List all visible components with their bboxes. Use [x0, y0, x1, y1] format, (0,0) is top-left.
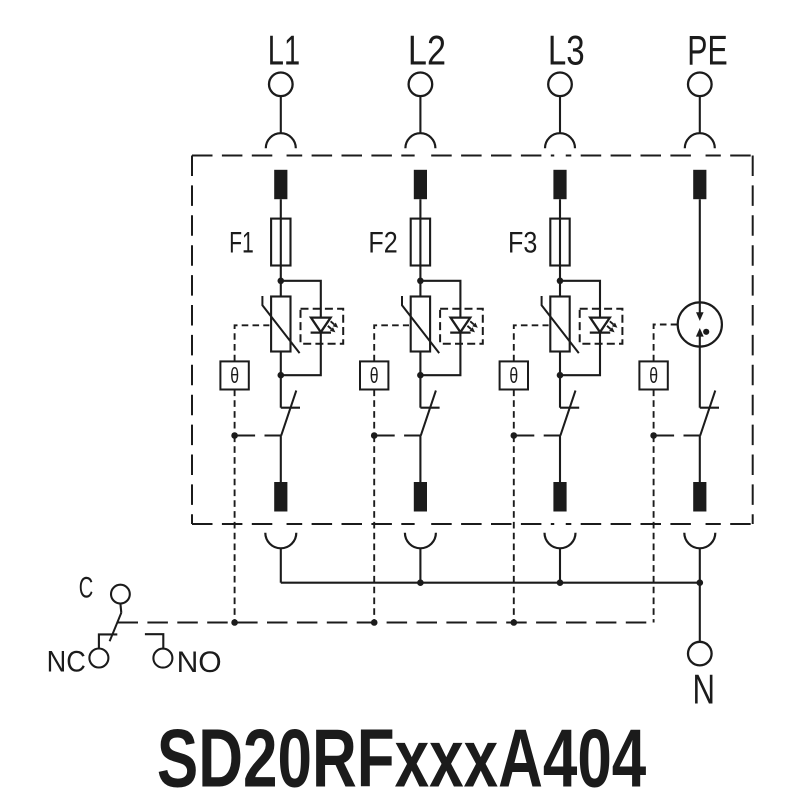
gap in box edges at branch: [415, 153, 427, 159]
terminal block top branch 1: [274, 170, 287, 199]
LED indicator dashed box branch 3: [580, 309, 623, 344]
svg-text:F1: F1: [229, 226, 254, 259]
switch fixed contact tick branch 2: [420, 407, 439, 409]
LED D2 cathode bar: [450, 331, 470, 333]
enclosure dashed box left edge: [191, 156, 193, 525]
wire switch to bottom block branch 1: [280, 436, 282, 483]
dashed linkage to signal bus branch 1: [234, 436, 236, 623]
thermal disconnect box branch 2: [360, 361, 388, 389]
plug-in connector arc bottom branch 2: [405, 533, 436, 549]
wire arc to bus branch 1: [280, 548, 282, 582]
dashed linkage to signal bus branch 2: [373, 436, 375, 623]
wire lower junction to switch branch 3: [559, 375, 561, 408]
wire block to junction through fuse branch 3: [559, 199, 561, 281]
junction node on bus: [557, 579, 564, 586]
wire switch to bottom block branch 3: [559, 436, 561, 483]
junction node branch 2 top: [417, 278, 424, 285]
terminal L3 circle: [548, 73, 572, 97]
terminal NC circle: [89, 649, 108, 668]
LED D2 emission arrows: [467, 321, 477, 332]
wire arc to bus branch 4: [699, 548, 701, 582]
wire terminal L3 to plug arc: [559, 96, 561, 133]
wire GDT to switch PE: [699, 347, 701, 408]
junction node theta linkage branch 1: [231, 432, 238, 439]
terminal block top branch 3: [553, 170, 566, 199]
svg-text:NO: NO: [177, 646, 222, 679]
dashed link theta to varistor branch 3: [514, 325, 549, 361]
gap in box edges at branch: [694, 153, 706, 159]
terminal N circle: [688, 642, 712, 666]
plug-in connector arc top branch 1: [266, 133, 296, 148]
dashed link theta to varistor branch 1: [235, 325, 270, 361]
switch fixed contact tick branch 1: [281, 407, 300, 409]
dashed linkage to signal bus branch 4: [653, 436, 655, 623]
terminal block bottom branch 3: [553, 482, 566, 512]
plug-in connector arc top branch 4: [685, 133, 715, 148]
svg-text:θ: θ: [649, 363, 658, 388]
plug-in connector arc bottom branch 3: [545, 533, 576, 549]
wire junction to LED column branch 1: [281, 281, 321, 318]
wire LED to lower junction branch 2: [420, 333, 460, 376]
NO contact bracket: [145, 634, 163, 648]
wire terminal L1 to plug arc: [280, 96, 282, 133]
varistor RV1 body: [271, 297, 290, 352]
junction node on signal bus: [231, 619, 238, 626]
dashed link theta down branch 3: [513, 390, 515, 436]
svg-text:PE: PE: [687, 27, 727, 73]
LED D3 triangle: [590, 318, 610, 333]
junction node on signal bus: [511, 619, 518, 626]
LED D1 cathode bar: [311, 331, 331, 333]
varistor RV2 diagonal: [402, 296, 439, 353]
dashed link theta to varistor branch 2: [374, 325, 409, 361]
wire junction to LED column branch 2: [420, 281, 460, 318]
GDT upper arrow (down): [699, 303, 701, 314]
svg-text:C: C: [79, 571, 94, 604]
gas discharge tube GDT circle: [678, 302, 722, 346]
wire block to gas discharge tube PE: [699, 199, 701, 302]
wire lower junction to switch branch 1: [280, 375, 282, 408]
LED D2 triangle: [451, 318, 471, 333]
LED D1 triangle: [311, 318, 331, 333]
wire arc to bus branch 2: [419, 548, 421, 582]
dashed linkage to switch blade branch 3: [514, 435, 560, 437]
junction node on bus: [417, 579, 424, 586]
GDT gas dot: [703, 329, 709, 335]
wire junction to varistor branch 1: [280, 281, 282, 297]
switch blade branch 1: [281, 391, 296, 436]
wire varistor to lower junction branch 1: [280, 352, 282, 376]
wire junction to varistor branch 2: [419, 281, 421, 297]
wire switch to bottom block branch 4: [699, 436, 701, 483]
enclosure dashed box right edge: [752, 156, 754, 525]
svg-text:L1: L1: [268, 27, 300, 73]
thermal disconnect box branch 1: [220, 361, 248, 389]
LED indicator dashed box branch 2: [440, 309, 483, 344]
svg-text:F2: F2: [368, 226, 397, 259]
enclosure dashed box top edge: [192, 155, 753, 157]
terminal block bottom branch 4: [693, 482, 706, 512]
dashed link theta down branch 1: [234, 390, 236, 436]
dashed remote signal bus: [118, 622, 654, 624]
plug-in connector arc bottom branch 1: [265, 533, 296, 549]
thermal disconnect box branch 3: [500, 361, 528, 389]
dashed linkage to signal bus branch 3: [513, 436, 515, 623]
NC contact bracket: [99, 634, 117, 648]
LED D1 emission arrows: [328, 321, 338, 332]
fuse F3 body: [550, 219, 569, 266]
varistor RV2 body: [411, 297, 430, 352]
terminal L2 circle: [409, 73, 433, 97]
plug-in connector arc top branch 3: [545, 133, 575, 148]
varistor RV3 body: [550, 297, 569, 352]
wire LED to lower junction branch 1: [281, 333, 321, 376]
fuse F2 body: [411, 219, 430, 266]
dashed linkage to switch blade branch 2: [374, 435, 420, 437]
gap in box edges at branch: [554, 153, 566, 159]
svg-text:L2: L2: [408, 27, 446, 73]
wire LED to lower junction branch 3: [560, 333, 600, 376]
dashed link theta down branch 4: [653, 390, 655, 436]
svg-text:θ: θ: [230, 363, 239, 388]
junction node theta linkage branch 2: [371, 432, 378, 439]
switch fixed contact tick branch 4: [700, 407, 719, 409]
LED D3 emission arrows: [607, 321, 617, 332]
svg-text:θ: θ: [370, 363, 379, 388]
junction node branch 2 bottom: [417, 372, 424, 379]
main bottom bus wire: [281, 582, 700, 584]
junction node theta linkage branch 3: [511, 432, 518, 439]
wire bus to terminal N: [699, 583, 701, 642]
terminal block bottom branch 1: [274, 482, 287, 512]
plug-in connector arc bottom branch 4: [684, 533, 715, 549]
wire junction to varistor branch 3: [559, 281, 561, 297]
wire varistor to lower junction branch 2: [419, 352, 421, 376]
svg-text:SD20RFxxxA404: SD20RFxxxA404: [157, 712, 646, 800]
wire switch to bottom block branch 2: [419, 436, 421, 483]
changeover common lead: [119, 604, 122, 613]
GDT lower arrow (up): [696, 328, 704, 337]
svg-text:θ: θ: [509, 363, 518, 388]
switch blade branch 2: [421, 391, 436, 436]
terminal C circle: [111, 585, 130, 604]
svg-text:NC: NC: [47, 646, 86, 679]
svg-text:F3: F3: [508, 226, 537, 259]
junction node branch 1 top: [278, 278, 285, 285]
terminal block top branch 4: [693, 170, 706, 199]
dashed linkage to switch blade branch 4: [654, 435, 700, 437]
gap in box edges at branch: [275, 153, 287, 159]
thermal disconnect box branch 4: [639, 361, 667, 389]
svg-text:N: N: [693, 666, 716, 712]
terminal block bottom branch 2: [414, 482, 427, 512]
switch blade branch 4: [700, 391, 715, 436]
wire arc to bus branch 3: [559, 548, 561, 582]
terminal L1 circle: [269, 73, 293, 97]
wire terminal L2 to plug arc: [419, 96, 421, 133]
junction node branch 3 bottom: [557, 372, 564, 379]
svg-text:L3: L3: [548, 27, 585, 73]
junction node on signal bus: [371, 619, 378, 626]
switch fixed contact tick branch 3: [560, 407, 579, 409]
varistor RV3 diagonal: [542, 296, 579, 353]
wire junction to LED column branch 3: [560, 281, 600, 318]
terminal block top branch 2: [414, 170, 427, 199]
LED indicator dashed box branch 1: [301, 309, 344, 344]
plug-in connector arc top branch 2: [405, 133, 435, 148]
junction node branch 1 bottom: [278, 372, 285, 379]
fuse F1 body: [271, 219, 290, 266]
junction node on bus: [697, 579, 704, 586]
changeover blade C to NC: [110, 613, 122, 642]
switch blade branch 3: [560, 391, 575, 436]
terminal NO circle: [153, 649, 172, 668]
varistor RV1 diagonal: [262, 296, 299, 353]
LED D3 cathode bar: [590, 331, 610, 333]
wire block to junction through fuse branch 1: [280, 199, 282, 281]
dashed link theta down branch 2: [373, 390, 375, 436]
junction node theta linkage branch 4: [650, 432, 657, 439]
wire lower junction to switch branch 2: [419, 375, 421, 408]
terminal PE circle: [688, 73, 712, 97]
wire block to junction through fuse branch 2: [419, 199, 421, 281]
enclosure dashed box bottom edge: [192, 523, 753, 525]
dashed linkage to switch blade branch 1: [235, 435, 281, 437]
wire terminal PE to plug arc: [699, 96, 701, 133]
junction node branch 3 top: [557, 278, 564, 285]
wire varistor to lower junction branch 3: [559, 352, 561, 376]
dashed link theta to GDT: [654, 325, 678, 362]
